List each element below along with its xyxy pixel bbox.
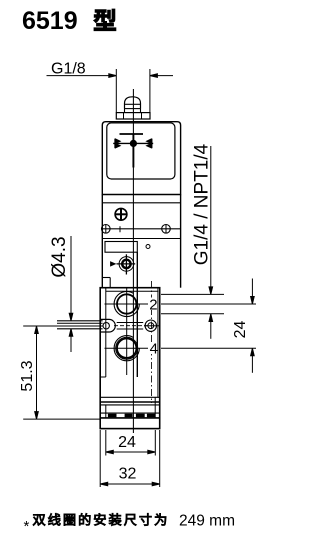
mounting tab boss stadium — [100, 319, 115, 332]
dimension leader line G1/8 right — [150, 75, 173, 77]
port 2 outer thread circle — [114, 291, 139, 316]
interface screw right — [162, 225, 171, 234]
body right inner line — [157, 288, 159, 398]
seal feet blocks — [108, 414, 117, 418]
dimension 24 bottom — [106, 451, 156, 453]
solenoid symbol right arm — [136, 142, 153, 144]
auxiliary centerline dash-dot right — [151, 281, 153, 403]
yoke left side — [101, 195, 103, 288]
mounting hole diameter 4.3 — [103, 323, 109, 329]
svg-text:Ø4.3: Ø4.3 — [49, 236, 70, 277]
adjustment target inner circle — [122, 260, 130, 268]
body inner verticals bottom — [105, 405, 107, 418]
coil base band line — [102, 202, 180, 204]
flange inner verticals — [123, 113, 125, 119]
yoke right side — [180, 195, 182, 288]
svg-text:249 mm: 249 mm — [179, 513, 235, 530]
port 2 inner circle — [117, 294, 136, 313]
body interface line lower thick — [100, 417, 160, 419]
solenoid symbol left arm — [113, 142, 130, 144]
left inner tick — [100, 376, 106, 378]
extension lines 24 right — [161, 303, 256, 305]
svg-text:24: 24 — [232, 321, 249, 339]
dimension 24 right lower — [251, 348, 253, 373]
pilot block rectangle — [105, 242, 137, 253]
solenoid label plate rounded rect — [107, 123, 175, 179]
fitting line upper — [125, 103, 141, 105]
dimension leader line G1/8 left — [47, 75, 116, 77]
solenoid symbol right end bar with arrows — [151, 139, 153, 149]
svg-text:51.3: 51.3 — [19, 360, 36, 391]
body lower line 3 — [100, 404, 160, 406]
footnote CJK text — [33, 514, 45, 525]
solenoid symbol left end bar with arrows — [114, 139, 116, 149]
breather screw crossed circle — [115, 208, 127, 220]
port 2 horizontal centerline — [105, 303, 149, 305]
small arrow mark at left — [111, 262, 116, 266]
solenoid symbol center dot — [130, 140, 136, 146]
dimension 24 right upper — [251, 279, 253, 305]
dimension line G1/4 upper — [210, 146, 212, 294]
extension lines 32 bottom — [99, 430, 101, 487]
body lower line 2 thick — [100, 401, 160, 403]
step notch lines — [102, 277, 110, 279]
port 4 label — [149, 342, 158, 354]
interface screw left — [102, 225, 111, 234]
dimension 32 bottom — [100, 483, 160, 485]
svg-text:2: 2 — [149, 297, 157, 314]
port 4 outer thread circle — [114, 336, 139, 361]
slot upper line — [117, 322, 144, 324]
extension lines G1/4 — [161, 293, 224, 295]
body lower line 1 — [100, 396, 160, 398]
svg-text:24: 24 — [118, 434, 136, 451]
slot lower line — [117, 328, 144, 330]
fitting neck sides — [124, 109, 126, 113]
interface band upper line — [102, 228, 180, 230]
interface band lower line — [102, 238, 180, 240]
mounting tab line 1 — [57, 320, 103, 322]
small vent hole — [146, 245, 150, 249]
main centerline — [132, 89, 134, 433]
body interface line upper — [100, 412, 160, 414]
solenoid coil body outline — [102, 122, 180, 195]
solenoid symbol vertical stroke — [132, 134, 134, 168]
mounting tab line 4 — [57, 328, 103, 330]
port 2 label — [149, 298, 158, 311]
extension line G1/8 left — [115, 69, 117, 113]
small cross mark on interface — [119, 226, 121, 232]
port 4 inner circle — [117, 339, 136, 358]
solenoid symbol T-bar — [120, 133, 144, 135]
pilot exhaust circle inner — [148, 323, 154, 329]
dimension 51.3 vertical line — [36, 326, 38, 419]
pilot exhaust cross horizontal — [144, 325, 160, 327]
svg-text:4: 4 — [150, 341, 158, 358]
port boss top line — [106, 290, 159, 292]
svg-text:6519: 6519 — [22, 7, 78, 35]
port 4 horizontal centerline — [105, 347, 149, 349]
mounting tab line 2 — [57, 322, 103, 324]
extension line G1/8 right — [149, 69, 151, 113]
adjustment target outer circle — [119, 257, 134, 272]
fitting flange — [116, 113, 150, 119]
target cross horizontal — [117, 263, 136, 265]
extension lines 24 bottom — [105, 430, 107, 456]
svg-text:32: 32 — [119, 466, 137, 483]
body left inner line — [105, 288, 107, 377]
dimension line diameter 4.3 — [70, 236, 72, 320]
port 4 seat circle — [116, 337, 138, 359]
pilot push rod line — [136, 252, 138, 377]
fitting line lower — [125, 108, 141, 110]
slot dashed centerline — [114, 325, 148, 327]
valve body outline — [100, 288, 160, 429]
svg-text:G1/8: G1/8 — [51, 61, 86, 78]
title CJK char 型 — [94, 9, 116, 31]
pilot exhaust circle outer — [145, 320, 156, 331]
target cross vertical — [125, 254, 127, 274]
mounting tab line 3 with 51.3 extension — [23, 325, 102, 327]
svg-text:G1/4 / NPT1/4: G1/4 / NPT1/4 — [192, 143, 213, 265]
dimension line G1/4 lower — [210, 314, 212, 339]
port axis line — [126, 288, 128, 375]
svg-text:*: * — [24, 518, 30, 535]
pilot port fitting dome — [125, 97, 141, 109]
extension line 51.3 bottom — [23, 418, 100, 420]
